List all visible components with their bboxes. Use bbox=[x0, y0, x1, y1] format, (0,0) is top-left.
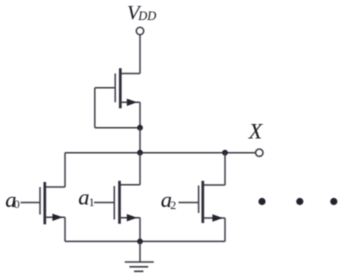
transistor Q-a0 gate line bbox=[39, 187, 41, 215]
label VDD bbox=[127, 2, 156, 24]
transistor Q-a2 drain lead bbox=[203, 184, 225, 186]
svg-text:2: 2 bbox=[170, 198, 176, 212]
transistor Q-a1 drain lead bbox=[120, 184, 141, 186]
transistor Q-a2 source arrow bbox=[212, 214, 222, 221]
wire gate feedback left bbox=[94, 88, 96, 128]
ground bbox=[125, 262, 154, 271]
svg-text:1: 1 bbox=[89, 195, 95, 209]
wire to X rail bbox=[139, 128, 141, 153]
label a2 bbox=[161, 187, 177, 212]
transistor Q-a2 gate lead bbox=[179, 202, 199, 204]
transistor Q-a1 source lead bbox=[120, 217, 141, 219]
transistor Q-a0 source arrow bbox=[52, 214, 62, 221]
junction load gate-source bbox=[137, 125, 143, 131]
wire load source down bbox=[139, 102, 141, 127]
ellipsis dot 2 bbox=[296, 198, 303, 205]
transistor Q-a2 source lead bbox=[203, 217, 225, 219]
wire a2 drain up bbox=[224, 153, 226, 185]
wire X rail bbox=[65, 152, 256, 154]
transistor Q-a1 gate lead bbox=[94, 202, 114, 204]
transistor M-load gate lead bbox=[95, 87, 115, 89]
transistor Q-a0 gate lead bbox=[21, 202, 41, 204]
svg-text:0: 0 bbox=[14, 197, 20, 211]
wire ground stem bbox=[139, 241, 141, 262]
label a1 bbox=[78, 184, 94, 209]
wire a1 source down bbox=[139, 218, 141, 242]
transistor Q-a1 channel bbox=[118, 181, 121, 224]
wire a2 source down bbox=[224, 218, 226, 241]
wire a0 drain up bbox=[64, 153, 66, 187]
transistor Q-a1 source arrow bbox=[127, 214, 137, 221]
transistor M-load drain lead bbox=[120, 73, 140, 75]
transistor M-load source lead bbox=[120, 101, 140, 103]
transistor Q-a2 gate line bbox=[198, 186, 200, 214]
junction ground rail bbox=[137, 239, 143, 245]
ellipsis dot 3 bbox=[330, 198, 337, 205]
wire gate feedback bottom bbox=[95, 127, 140, 129]
transistor M-load gate line bbox=[114, 74, 116, 103]
transistor Q-a2 channel bbox=[201, 181, 204, 223]
transistor Q-a0 channel bbox=[43, 182, 46, 224]
wire VDD stem bbox=[139, 35, 141, 74]
wire a1 drain up bbox=[139, 153, 141, 185]
svg-text:X: X bbox=[248, 119, 264, 144]
transistor Q-a0 source lead bbox=[45, 216, 65, 218]
junction rail a2 bbox=[222, 150, 228, 156]
junction rail a1 bbox=[137, 150, 143, 156]
transistor M-load channel bbox=[119, 68, 122, 108]
transistor Q-a1 gate line bbox=[113, 186, 115, 220]
ellipsis dot 1 bbox=[258, 198, 265, 205]
label a0 bbox=[5, 187, 20, 212]
node X terminal bbox=[256, 149, 263, 156]
wire a0 source down bbox=[64, 217, 66, 241]
node VDD terminal bbox=[136, 27, 143, 34]
svg-text:DD: DD bbox=[137, 9, 156, 23]
wire ground rail bbox=[65, 240, 225, 242]
transistor M-load source arrow bbox=[127, 99, 137, 106]
transistor Q-a0 drain lead bbox=[45, 186, 65, 188]
